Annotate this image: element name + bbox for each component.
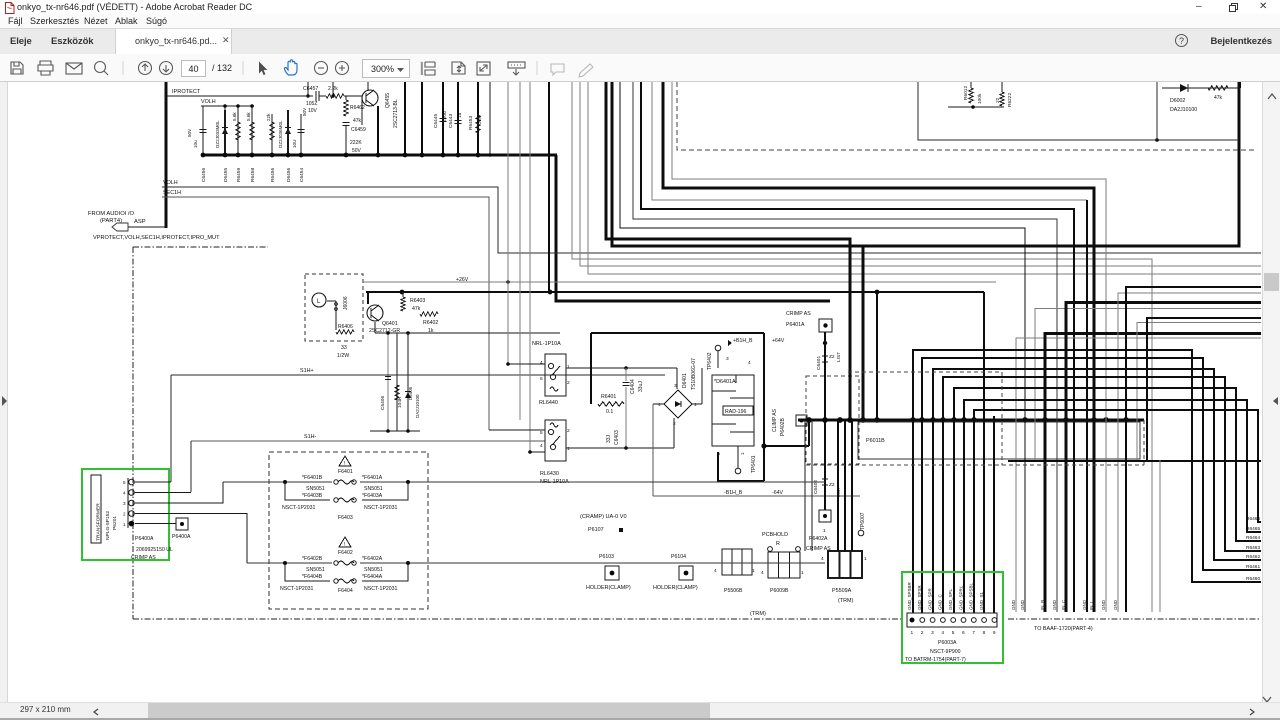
svg-text:(TRM): (TRM)	[838, 598, 853, 604]
wire	[1066, 303, 1261, 613]
wire +B rail	[366, 291, 877, 293]
svg-text:R6403: R6403	[410, 298, 425, 304]
svg-text:GND_SPSBL: GND_SPSBL	[969, 582, 974, 610]
svg-text:PCBHOLD: PCBHOLD	[762, 532, 788, 538]
svg-text:R: R	[776, 541, 780, 547]
capacitor C6445	[442, 82, 444, 155]
svg-text:R6401: R6401	[601, 394, 616, 400]
svg-text:DZ2J033M0L: DZ2J033M0L	[215, 120, 220, 148]
wire	[135, 492, 191, 494]
fuse F6402	[247, 562, 825, 564]
svg-text:SEC1H: SEC1H	[163, 190, 181, 196]
wire	[824, 332, 826, 510]
svg-text:ASP: ASP	[134, 219, 146, 225]
svg-text:GND_SPR: GND_SPR	[927, 587, 932, 610]
wire	[548, 82, 550, 292]
svg-text:(PART4): (PART4)	[100, 218, 122, 224]
svg-text:RL6430: RL6430	[540, 471, 559, 477]
wire	[672, 82, 1106, 612]
wire S1H+	[171, 374, 665, 376]
svg-text:NSCT-1P2031: NSCT-1P2031	[282, 505, 316, 511]
inductor J6006 box	[305, 274, 363, 341]
wire	[652, 82, 1087, 200]
wire	[653, 495, 860, 497]
wire	[948, 106, 1004, 108]
svg-text:4: 4	[540, 443, 543, 449]
svg-text:P6201: P6201	[112, 516, 118, 530]
svg-text:DZ2J036M0L: DZ2J036M0L	[278, 120, 283, 148]
heatsink RAD-196 D6401A	[712, 375, 754, 446]
svg-text:1: 1	[801, 570, 804, 576]
wire	[332, 82, 334, 96]
svg-text:TP6007: TP6007	[860, 512, 866, 530]
wire VOLH rail	[201, 105, 254, 107]
svg-text:4: 4	[761, 570, 764, 576]
svg-text:R6402: R6402	[423, 320, 438, 326]
svg-text:IPROTECT: IPROTECT	[172, 89, 201, 95]
svg-text:GND: GND	[1101, 599, 1106, 610]
svg-text:R6462: R6462	[350, 105, 365, 111]
wire	[993, 416, 995, 613]
resistor R6403	[402, 292, 404, 297]
svg-text:1: 1	[823, 528, 826, 534]
svg-text:Q6455: Q6455	[385, 93, 391, 108]
svg-text:2: 2	[673, 421, 676, 427]
svg-text:NRL-1P10A: NRL-1P10A	[532, 341, 561, 347]
svg-text:HOLDER(CLAMP): HOLDER(CLAMP)	[586, 585, 631, 591]
wire	[983, 292, 985, 613]
junction	[1123, 417, 1129, 423]
wire SEC1H	[162, 197, 489, 430]
svg-text:R6461: R6461	[1246, 564, 1260, 570]
wire RAD bottom	[718, 452, 764, 481]
wire bus corner down	[556, 155, 830, 301]
res R6456	[271, 114, 273, 155]
svg-text:4: 4	[123, 491, 126, 496]
svg-text:47k: 47k	[412, 306, 421, 312]
svg-text:SN5051: SN5051	[306, 567, 325, 573]
svg-text:TRANSFORMER: TRANSFORMER	[96, 503, 102, 541]
svg-text:RAD-196: RAD-196	[725, 409, 746, 415]
wire	[135, 481, 171, 483]
junction	[1063, 417, 1069, 423]
svg-text:IN_R: IN_R	[1040, 599, 1045, 610]
junction	[822, 417, 828, 423]
svg-text:*F6403A: *F6403A	[362, 493, 383, 499]
svg-text:1: 1	[911, 630, 914, 636]
wire	[1045, 334, 1261, 613]
svg-text:22k: 22k	[266, 113, 271, 121]
resistor 104K	[396, 333, 398, 431]
svg-text:10u: 10u	[193, 140, 198, 148]
wire	[529, 82, 531, 452]
wire	[572, 82, 1152, 612]
wire bus SEC1H top	[202, 154, 557, 157]
wire	[165, 82, 168, 228]
wire	[530, 451, 545, 453]
junction	[940, 417, 946, 423]
svg-text:3: 3	[931, 630, 934, 636]
svg-text:22k: 22k	[477, 116, 483, 124]
wire dashed boundary	[677, 82, 1254, 150]
wire	[566, 367, 677, 369]
wire	[1126, 287, 1261, 612]
wire	[519, 82, 521, 420]
svg-text:TO BATRM-1754(PART-7): TO BATRM-1754(PART-7)	[905, 657, 966, 663]
wire	[1118, 293, 1261, 612]
svg-text:R6456: R6456	[270, 168, 276, 182]
svg-text:2: 2	[567, 380, 570, 386]
svg-text:C6456: C6456	[201, 168, 207, 182]
transformer P6201	[91, 475, 101, 543]
svg-text:TO BAAF-1720(PART-4): TO BAAF-1720(PART-4)	[1034, 626, 1093, 632]
wire	[377, 106, 379, 155]
capacitor C6443	[457, 82, 459, 155]
wire	[663, 82, 1094, 612]
svg-text:F6404: F6404	[338, 588, 353, 594]
junction	[223, 104, 227, 108]
junction	[1022, 417, 1028, 423]
svg-text:+B1H_B: +B1H_B	[733, 338, 753, 344]
svg-text:GND_SPSR: GND_SPSR	[917, 584, 922, 610]
wire RAD right	[763, 333, 765, 481]
svg-text:P5509A: P5509A	[832, 588, 852, 594]
svg-text:RL6440: RL6440	[539, 400, 558, 406]
svg-text:NSCT-9P900: NSCT-9P900	[930, 649, 961, 655]
power rail +26V	[363, 281, 996, 283]
svg-text:P6402B: P6402B	[780, 418, 786, 436]
svg-text:50V: 50V	[187, 128, 192, 137]
svg-text:50V: 50V	[352, 148, 362, 154]
svg-text:4: 4	[540, 360, 543, 366]
connector P6402A	[819, 510, 831, 522]
svg-text:C6404: C6404	[630, 379, 636, 394]
svg-text:CLIMP AS: CLIMP AS	[772, 408, 778, 432]
junction	[250, 104, 254, 108]
transistor Q6455	[367, 82, 369, 91]
svg-text:NPLG-5P152: NPLG-5P152	[105, 511, 111, 540]
svg-text:R6460: R6460	[1246, 576, 1260, 582]
svg-text:6: 6	[540, 376, 543, 382]
wire	[633, 82, 1057, 612]
svg-text:*F6402A: *F6402A	[362, 556, 383, 562]
svg-text:2: 2	[921, 630, 924, 636]
svg-text:FROM AUDIOI /O: FROM AUDIOI /O	[88, 211, 135, 217]
wire	[837, 420, 839, 551]
svg-text:2: 2	[716, 452, 722, 455]
junction	[874, 417, 880, 423]
wire	[811, 420, 813, 551]
wire	[764, 445, 809, 447]
svg-text:9: 9	[993, 630, 996, 636]
junction	[919, 417, 925, 423]
junction	[961, 417, 967, 423]
svg-text:5: 5	[540, 430, 543, 436]
svg-text:P6400A: P6400A	[135, 536, 154, 542]
svg-text:!: !	[344, 542, 345, 548]
dio D6455	[224, 106, 226, 155]
wire S1H-	[191, 440, 545, 442]
svg-text:(TRM): (TRM)	[750, 611, 766, 617]
svg-text:R6462: R6462	[1246, 554, 1260, 560]
resistor R6402	[420, 312, 438, 316]
svg-text:+26V: +26V	[456, 277, 469, 283]
pin 7	[971, 618, 976, 623]
svg-text:CRIMP AS: CRIMP AS	[131, 555, 156, 561]
wire	[135, 514, 247, 564]
junction	[1103, 417, 1109, 423]
svg-text:2.2k: 2.2k	[328, 86, 338, 92]
wire	[922, 358, 1261, 613]
connector P5509A	[828, 551, 862, 578]
svg-text:HOLDER(CLAMP): HOLDER(CLAMP)	[653, 585, 698, 591]
svg-text:0.1: 0.1	[606, 409, 613, 415]
wire	[653, 403, 664, 405]
svg-text:4: 4	[941, 630, 944, 636]
svg-text:S1H-: S1H-	[304, 434, 316, 440]
diode bridge D6401	[664, 390, 692, 418]
svg-text:GND: GND	[1113, 599, 1118, 610]
svg-text:P5506B: P5506B	[724, 588, 743, 594]
wire	[862, 246, 865, 420]
transistor Q6401	[367, 305, 383, 321]
svg-text:1: 1	[123, 522, 126, 527]
resistor R6222	[1001, 82, 1003, 92]
resistor R6406	[327, 300, 336, 302]
wire	[1147, 318, 1261, 460]
pin 6	[961, 618, 966, 623]
svg-text:VPROTECT,VOLH,SEC1H,IPROTECT,I: VPROTECT,VOLH,SEC1H,IPROTECT,IPRO_MUT	[93, 235, 220, 241]
svg-text:105Z: 105Z	[306, 101, 317, 107]
wire IPROTECT rail	[166, 95, 306, 97]
svg-text:4: 4	[748, 360, 751, 366]
warning triangle	[339, 537, 351, 547]
res R6458	[251, 106, 253, 155]
svg-text:5.6k: 5.6k	[246, 112, 251, 121]
svg-text:S1H+: S1H+	[300, 368, 314, 374]
connector P5506B	[722, 549, 752, 575]
junction	[910, 417, 916, 423]
svg-text:D6455: D6455	[223, 168, 229, 182]
wire	[404, 82, 406, 155]
fuse box	[269, 452, 428, 609]
connector box P6011B	[858, 422, 1140, 459]
fuse F6403	[285, 482, 330, 500]
svg-text:Z2: Z2	[829, 354, 835, 360]
svg-text:TP6401: TP6401	[751, 455, 757, 473]
svg-text:222K: 222K	[350, 140, 362, 146]
svg-text:NSCT-1P2031: NSCT-1P2031	[280, 586, 314, 592]
svg-text:Z2: Z2	[829, 482, 835, 488]
svg-text:DA2J10100: DA2J10100	[415, 394, 420, 418]
svg-text:*F6404A: *F6404A	[362, 574, 383, 580]
svg-text:47k: 47k	[353, 118, 362, 124]
junction	[971, 417, 977, 423]
svg-text:LIST: LIST	[836, 352, 842, 362]
svg-text:10V: 10V	[308, 108, 318, 114]
svg-text:1: 1	[752, 568, 755, 574]
svg-text:C6459: C6459	[351, 127, 366, 133]
wire	[489, 429, 545, 431]
svg-text:P6104: P6104	[671, 554, 686, 560]
svg-text:!: !	[344, 461, 345, 467]
svg-text:NSCT-1P2031: NSCT-1P2031	[364, 505, 398, 511]
wire	[1137, 323, 1261, 460]
svg-text:GND_S1: GND_S1	[979, 591, 984, 610]
svg-text:5: 5	[952, 630, 955, 636]
wire +B1H_B +64V	[591, 332, 764, 334]
fuse F6404	[285, 563, 330, 581]
svg-text:/ 132: / 132	[212, 63, 232, 73]
svg-text:C6403: C6403	[614, 430, 620, 445]
wire	[367, 292, 369, 304]
connector P6400A	[127, 478, 129, 528]
svg-text:50V: 50V	[302, 107, 307, 116]
svg-text:L: L	[317, 299, 321, 305]
svg-text:33J: 33J	[606, 434, 612, 443]
svg-text:C6401: C6401	[816, 356, 822, 370]
svg-text:TS10B06G-07: TS10B06G-07	[691, 358, 697, 390]
svg-text:SN5051: SN5051	[364, 486, 383, 492]
svg-text:100k: 100k	[977, 93, 983, 104]
res R6459	[237, 106, 239, 155]
diode D6002	[1162, 87, 1240, 89]
pin 2	[920, 618, 925, 623]
svg-text:NSCT-1P2031: NSCT-1P2031	[364, 586, 398, 592]
svg-text:C6443: C6443	[448, 114, 454, 128]
dashed box	[806, 376, 859, 464]
svg-text:*D6401A: *D6401A	[714, 379, 736, 385]
svg-text:GND_SPL: GND_SPL	[948, 588, 953, 610]
dio D6456	[287, 114, 289, 155]
svg-text:P6401A: P6401A	[786, 322, 805, 328]
wire	[1016, 338, 1261, 612]
junction	[930, 417, 936, 423]
fuse F6401	[223, 481, 825, 483]
junction	[837, 417, 843, 423]
svg-text:SN5051: SN5051	[306, 486, 325, 492]
test point TP6402	[715, 345, 721, 351]
svg-text:P6400A: P6400A	[172, 534, 191, 540]
wire main bus	[798, 419, 1144, 422]
cap C6456	[202, 106, 204, 155]
svg-text:GND: GND	[1011, 599, 1016, 610]
wire	[421, 82, 423, 155]
wire	[612, 82, 1239, 246]
wire VOLH	[162, 187, 1261, 253]
pin 5	[951, 618, 956, 623]
svg-text:R6406: R6406	[338, 324, 353, 330]
svg-text:-64V: -64V	[772, 490, 783, 496]
junction	[1042, 417, 1048, 423]
pin 8	[982, 618, 987, 623]
svg-text:22: 22	[995, 97, 1001, 103]
cap C6454	[300, 114, 302, 155]
svg-text:R6464: R6464	[1246, 535, 1260, 541]
svg-text:*F6401A: *F6401A	[362, 475, 383, 481]
svg-text:P6003A: P6003A	[938, 640, 957, 646]
wire	[588, 82, 1261, 274]
junction	[860, 417, 866, 423]
relay RL6430	[545, 420, 566, 461]
test point TP6007	[858, 530, 864, 536]
svg-text:IN_C: IN_C	[1061, 599, 1066, 610]
svg-text:CRIMP AS: CRIMP AS	[786, 311, 811, 317]
svg-text:6: 6	[962, 630, 965, 636]
svg-text:C6445: C6445	[433, 114, 439, 128]
wire	[964, 400, 1261, 613]
svg-text:R6463: R6463	[1246, 545, 1260, 551]
wire	[913, 350, 1261, 613]
resistor R6453	[477, 82, 479, 155]
wire	[508, 363, 545, 365]
capacitor C6404	[625, 368, 627, 381]
pin 1	[910, 618, 915, 623]
svg-text:3: 3	[123, 501, 126, 506]
wire	[580, 82, 1261, 266]
pin 4	[941, 618, 946, 623]
wire box	[918, 82, 1239, 140]
wire	[692, 403, 702, 405]
wire	[844, 420, 846, 551]
svg-text:Q6401: Q6401	[382, 321, 398, 327]
svg-text:10U: 10U	[292, 140, 297, 148]
wire	[361, 96, 363, 125]
svg-text:GND_C: GND_C	[938, 593, 943, 610]
svg-text:D6002: D6002	[1170, 98, 1185, 104]
wire emitter rail	[374, 322, 376, 333]
resistor R6012	[970, 82, 972, 88]
svg-text:4: 4	[714, 568, 717, 574]
highlight box connector	[902, 572, 1003, 663]
wire	[1239, 82, 1241, 88]
wire	[606, 82, 850, 420]
svg-text:3: 3	[726, 356, 729, 362]
wire	[943, 377, 1261, 613]
junction	[236, 104, 240, 108]
wire	[128, 226, 166, 228]
svg-text:P6011B: P6011B	[866, 438, 885, 444]
wire	[620, 82, 1025, 612]
svg-text:-B1H_B: -B1H_B	[724, 490, 743, 496]
svg-text:P6009B: P6009B	[770, 588, 789, 594]
wire	[566, 447, 674, 449]
svg-text:GND_SPRL: GND_SPRL	[958, 585, 963, 610]
diode D6405	[407, 333, 409, 431]
svg-text:P6103: P6103	[599, 554, 614, 560]
wire	[1035, 309, 1261, 461]
svg-text:1: 1	[740, 452, 746, 455]
node ASP input	[112, 223, 128, 231]
wire	[135, 523, 176, 525]
wire	[933, 369, 1261, 613]
pin 3	[930, 618, 935, 623]
svg-text:R6453: R6453	[468, 116, 474, 130]
svg-text:GND: GND	[1020, 599, 1025, 610]
svg-text:104K: 104K	[397, 396, 403, 408]
svg-text:TP6402: TP6402	[707, 352, 713, 370]
wire	[641, 82, 1074, 612]
svg-text:D6405: D6405	[408, 386, 413, 400]
svg-text:1: 1	[567, 446, 570, 452]
svg-text:R6458: R6458	[250, 168, 256, 182]
svg-text:*F6404B: *F6404B	[302, 574, 323, 580]
svg-text:5: 5	[123, 480, 126, 485]
wire	[851, 420, 853, 551]
capacitor C6406	[387, 333, 389, 431]
wire	[1159, 460, 1161, 612]
svg-text:2: 2	[567, 428, 570, 434]
